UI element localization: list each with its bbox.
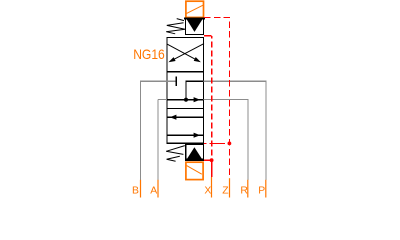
port stub B (orange)	[140, 180, 142, 198]
port stub R (orange)	[247, 180, 249, 198]
svg-text:B: B	[132, 186, 139, 197]
pilot branch to Z junction (red dashed)	[204, 142, 225, 144]
crossed arrow right (X pattern)	[167, 44, 201, 62]
pilot line X (red dashed, from pilot valve)	[204, 35, 212, 37]
check valve seat (thick base)	[185, 158, 204, 160]
svg-text:A: A	[150, 186, 157, 197]
flow line with left arrow	[167, 115, 204, 120]
check valve spring	[166, 146, 185, 162]
junction dot Z (red)	[228, 142, 232, 146]
svg-text:R: R	[240, 186, 248, 197]
junction dot (black)	[184, 98, 188, 102]
solenoid S2 (bottom, orange)	[186, 162, 203, 179]
port stub Z (orange)	[229, 178, 231, 197]
pilot spring	[166, 19, 185, 34]
solenoid S1 (energized, orange)	[186, 1, 204, 17]
check valve box	[186, 145, 204, 161]
flow line A-R with right arrow	[167, 97, 204, 102]
pilot poppet triangle (down)	[187, 19, 203, 32]
svg-text:Z: Z	[222, 186, 229, 197]
wire port B (gray)	[141, 81, 176, 180]
crossed arrow left (X pattern)	[168, 44, 204, 63]
port stub A (orange)	[157, 180, 159, 198]
svg-text:P: P	[258, 186, 265, 197]
port stub X (orange)	[211, 177, 213, 198]
internal line P-port elbow	[186, 81, 204, 100]
main valve body	[167, 37, 204, 143]
check poppet triangle (up)	[186, 147, 203, 160]
flow line with right arrow	[167, 133, 204, 138]
pilot branch from check valve (red)	[204, 159, 212, 161]
svg-text:X: X	[204, 186, 211, 197]
svg-text:NG16: NG16	[133, 46, 165, 62]
wire port P (gray)	[204, 81, 266, 180]
junction dot X (red)	[210, 158, 214, 162]
pilot line Z (red dashed, from solenoid S1)	[204, 17, 229, 178]
wire port R (gray)	[204, 100, 248, 180]
section divider 2	[167, 108, 204, 110]
port stub P (orange)	[265, 180, 267, 198]
pilot valve box U1	[184, 18, 205, 34]
section divider 1	[167, 71, 204, 73]
port B plug (T bar)	[175, 77, 177, 86]
wire port A (gray)	[158, 100, 167, 180]
pilot line X lower drop (red dashed)	[211, 160, 213, 177]
